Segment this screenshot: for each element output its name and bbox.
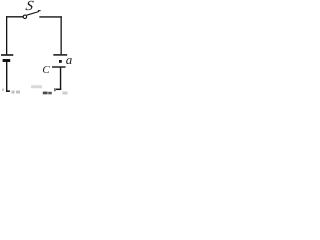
wire left vertical lower xyxy=(6,62,8,92)
switch S1 lever tip tick xyxy=(38,10,41,12)
wire right vertical upper xyxy=(60,16,62,54)
battery B1 short thick plate xyxy=(3,59,11,62)
faint cropped-text remnant mid xyxy=(16,91,20,94)
switch S1 pivot circle xyxy=(23,15,27,19)
dark cropped-text remnant right of center xyxy=(54,88,56,91)
faint cropped-text remnant bottom-left xyxy=(2,89,4,92)
svg-text:a: a xyxy=(66,52,72,67)
capacitor C bottom plate xyxy=(52,66,66,68)
wire left vertical upper xyxy=(6,16,8,54)
node a dot xyxy=(59,60,62,63)
wire top-left horizontal xyxy=(6,16,23,18)
svg-text:C: C xyxy=(42,64,50,76)
switch S1 lever xyxy=(27,12,39,16)
wire right vertical lower xyxy=(60,68,62,90)
faint cropped-text remnant bottom-right xyxy=(63,92,68,95)
wire bottom-right stub xyxy=(56,88,61,90)
faint cropped-text remnant center xyxy=(31,85,42,88)
battery B1 long plate xyxy=(1,54,13,56)
dark cropped-text remnant center-right xyxy=(43,92,48,95)
dark cropped-text remnant center-right2 xyxy=(48,92,52,95)
faint cropped-text remnant left-mid xyxy=(12,91,15,94)
wire bottom-left stub xyxy=(6,90,10,92)
wire top-right horizontal xyxy=(39,16,62,18)
capacitor C top plate xyxy=(53,54,67,56)
